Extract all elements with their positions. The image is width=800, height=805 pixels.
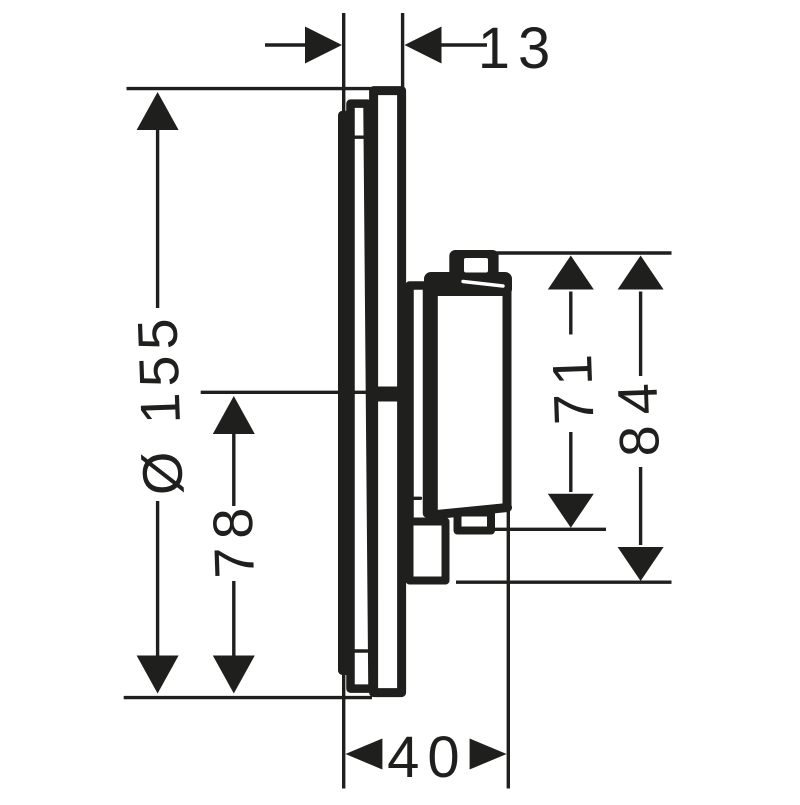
dim 78 lower dimension line — [232, 581, 235, 658]
dim 71 bottom extension line — [494, 528, 607, 531]
dim 40 right arrowhead — [470, 739, 507, 770]
dim 84 bottom extension line — [456, 581, 672, 584]
dim 13 left extension line — [342, 13, 345, 111]
sleeve upper tick — [353, 135, 368, 138]
valve body left wall — [429, 287, 438, 515]
dim 155 top arrowhead — [137, 92, 179, 130]
dim 78 top extension line — [201, 391, 369, 394]
dim 78 upper dimension line — [232, 432, 235, 506]
dim 78 bottom arrowhead — [213, 656, 255, 694]
valve mounting block (slim rect, open bottom) — [410, 286, 428, 518]
svg-text:40: 40 — [387, 725, 468, 790]
svg-text:78: 78 — [200, 499, 266, 579]
dim 13 left leader line — [265, 43, 310, 46]
dim 84 lower dimension line — [639, 467, 642, 545]
dim 155 top extension line — [127, 87, 373, 90]
svg-text:84: 84 — [605, 371, 671, 457]
dim 155/78 bottom extension line — [124, 696, 372, 699]
valve bottom nub — [458, 513, 492, 531]
valve body right wall — [503, 287, 512, 507]
dim 13 right leader line — [440, 43, 487, 46]
dim 71 lower dimension line — [569, 432, 572, 492]
wall flange bar (filled) — [338, 111, 354, 675]
escutcheon plate divider bar — [369, 387, 406, 402]
valve flange highlight sliver — [463, 282, 503, 287]
valve mounting block lower tick — [406, 497, 421, 500]
valve body bottom wall (slanted) — [432, 508, 508, 516]
dim 71/84 top extension line — [484, 251, 672, 254]
dim 84 bottom arrowhead — [618, 547, 664, 581]
svg-text:Ø 155: Ø 155 — [125, 312, 194, 497]
escutcheon plate outline (side view) — [374, 91, 402, 693]
dim 155 bottom arrowhead — [137, 656, 179, 694]
dim 71 upper dimension line — [569, 292, 572, 335]
valve top cap — [449, 250, 498, 278]
dim 84 upper dimension line — [639, 292, 642, 377]
dim 71 top arrowhead — [548, 256, 594, 290]
dim 155 upper dimension line — [156, 128, 159, 308]
dim 40 left extension line — [342, 660, 345, 789]
sleeve outline behind plate — [351, 104, 373, 689]
sleeve lower tick — [353, 649, 368, 652]
dim 40 right extension line — [507, 507, 510, 789]
dim 13 right arrowhead — [405, 27, 442, 64]
svg-text:13: 13 — [478, 16, 559, 81]
valve flange (filled bar) — [424, 272, 512, 296]
dim 155 lower dimension line — [156, 501, 159, 658]
svg-text:71: 71 — [540, 345, 606, 425]
dim 40 left arrowhead — [345, 739, 382, 770]
dim 84 top arrowhead — [618, 256, 664, 290]
valve foot — [410, 522, 446, 581]
dim 13 left arrowhead — [305, 27, 342, 64]
valve top cap inner window — [464, 258, 488, 273]
dim 71 bottom arrowhead — [548, 494, 594, 528]
dim 78 top arrowhead — [213, 396, 255, 434]
dim 13 right extension line — [401, 13, 404, 92]
